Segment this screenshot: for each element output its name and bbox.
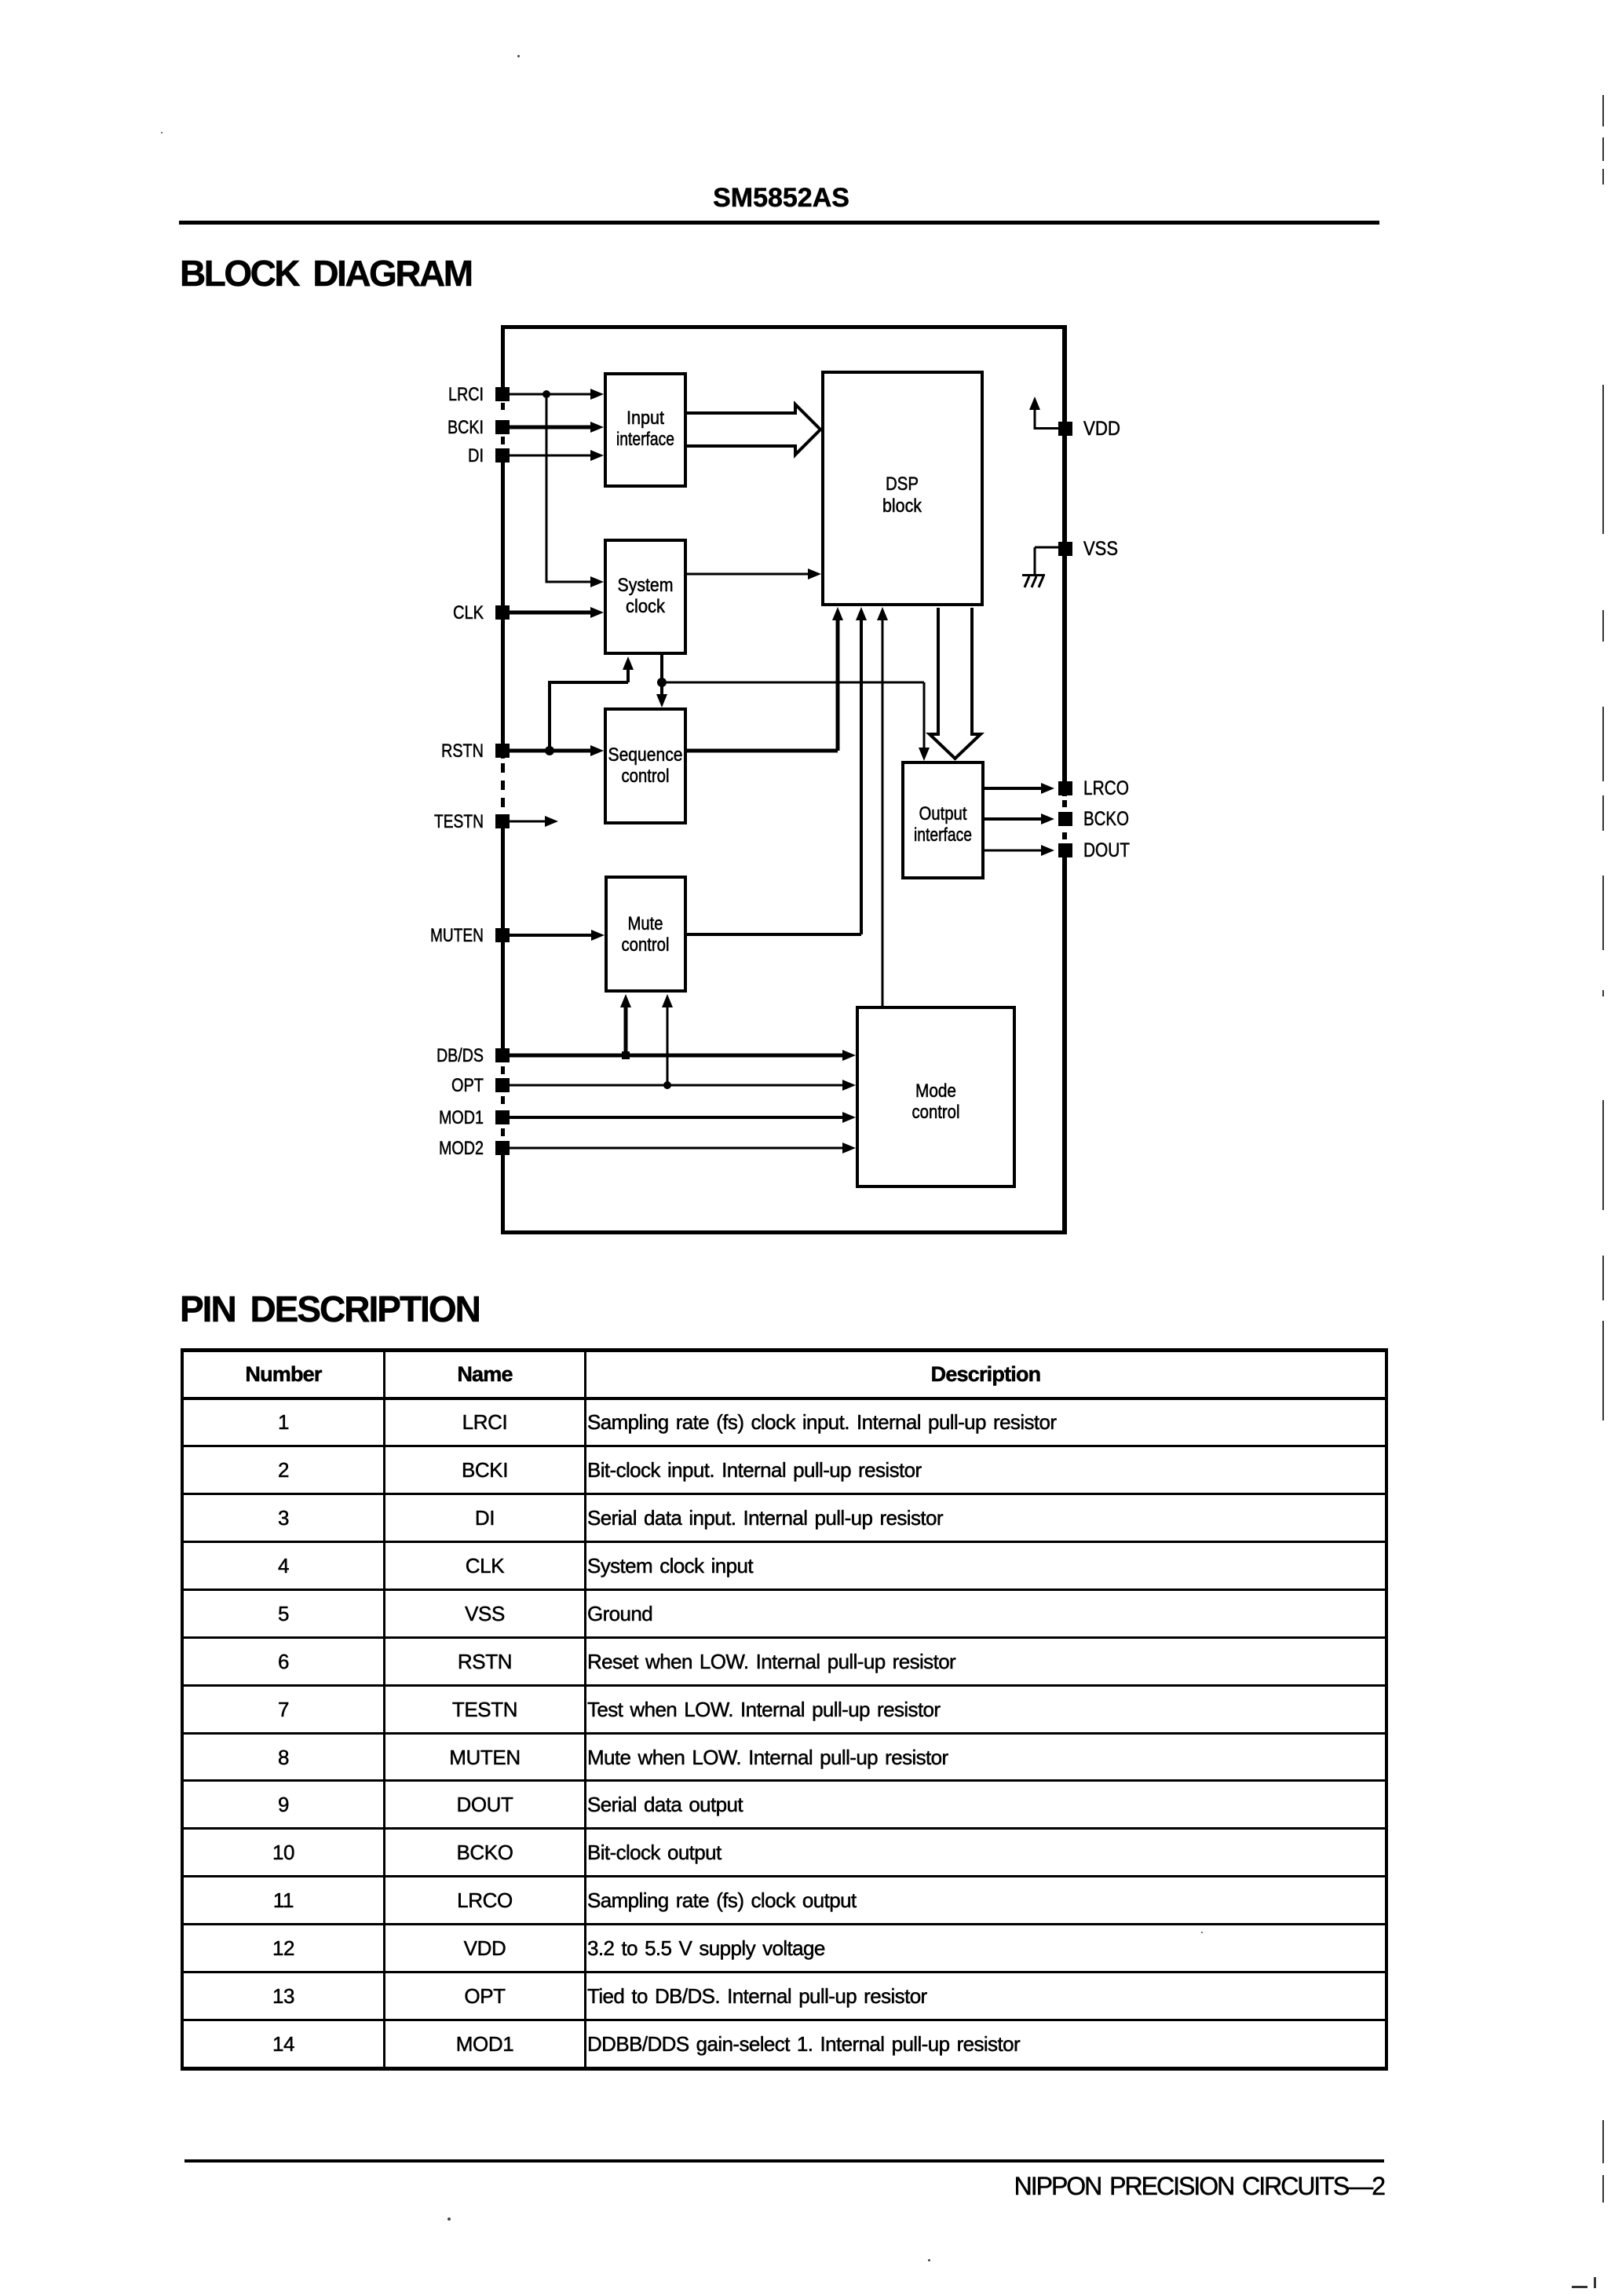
svg-text:LRCI: LRCI: [448, 384, 484, 405]
svg-text:VDD: VDD: [1083, 418, 1120, 440]
scan artifact: right margin broken line: [1602, 95, 1604, 126]
pin RSTN: [441, 740, 510, 762]
svg-text:BCKI: BCKI: [448, 417, 484, 438]
pin TESTN: [434, 811, 510, 832]
svg-text:CLK: CLK: [453, 602, 484, 623]
svg-text:RSTN: RSTN: [441, 740, 484, 762]
wire BCKI to Input interface: [510, 422, 604, 433]
wire LRCI to Input interface: [510, 389, 604, 400]
block Input interface: [605, 374, 685, 486]
svg-text:control: control: [622, 934, 670, 956]
page title SM5852AS: [709, 185, 853, 211]
block Mode control: [857, 1007, 1014, 1186]
svg-text:control: control: [912, 1102, 960, 1123]
pin MOD1: [439, 1107, 510, 1128]
wire MUTEN to Mute control: [510, 930, 605, 941]
svg-text:VSS: VSS: [1083, 538, 1118, 560]
pin LRCI: [448, 384, 510, 405]
chip boundary top edge: [501, 325, 1067, 329]
svg-text:LRCO: LRCO: [1083, 777, 1129, 799]
pin MOD2: [439, 1138, 510, 1159]
chip boundary right edge (solid upper): [1062, 325, 1067, 796]
block DSP: [823, 372, 982, 605]
wire Output interface to BCKO: [985, 813, 1054, 824]
svg-text:BCKO: BCKO: [1083, 808, 1129, 830]
svg-text:DOUT: DOUT: [1083, 839, 1130, 861]
svg-text:MOD2: MOD2: [439, 1138, 484, 1159]
scan artifact: small speckle dots: [517, 55, 520, 57]
table row 7 TESTN: [184, 1732, 1385, 1735]
svg-text:Sequence: Sequence: [608, 744, 683, 766]
wire Mode control to DSP: [877, 607, 888, 1007]
svg-text:Input: Input: [627, 408, 664, 429]
table row 13 OPT: [184, 2019, 1385, 2021]
pin VSS: [1058, 538, 1118, 560]
svg-text:Output: Output: [919, 803, 967, 824]
wire Output interface to DOUT: [985, 845, 1054, 856]
table row 10 BCKO: [184, 1875, 1385, 1877]
wire CLK to System clock: [510, 607, 604, 618]
bus arrow DSP to Output interface: [930, 608, 981, 759]
svg-text:DB/DS: DB/DS: [437, 1045, 484, 1066]
wire LRCI branch to System clock: [546, 394, 605, 587]
table row 8 MUTEN: [184, 1779, 1385, 1782]
svg-text:clock: clock: [626, 596, 666, 617]
svg-text:MOD1: MOD1: [439, 1107, 484, 1128]
table row 2 BCKI: [184, 1493, 1385, 1495]
table header row: [184, 1397, 1385, 1400]
wire DB/DS branch to Mute control: [620, 994, 631, 1055]
pin BCKO: [1058, 808, 1129, 830]
wire TESTN stub: [510, 816, 558, 827]
wire Output interface to LRCO: [985, 783, 1054, 794]
svg-text:Mode: Mode: [915, 1080, 956, 1102]
top rule: [179, 221, 1379, 225]
svg-text:Mute: Mute: [628, 913, 663, 934]
block System clock: [605, 540, 685, 653]
block Sequence control: [605, 709, 685, 823]
wire DB/DS to Mode control: [510, 1050, 856, 1061]
heading BLOCK DIAGRAM: [180, 255, 472, 291]
svg-text:DI: DI: [468, 445, 484, 466]
pin CLK: [453, 602, 510, 623]
VDD supply symbol: [1029, 397, 1059, 430]
svg-text:interface: interface: [616, 429, 674, 450]
wire Sequence control to DSP: [687, 607, 843, 753]
svg-text:TESTN: TESTN: [434, 811, 484, 832]
chip boundary bottom edge: [501, 1230, 1067, 1234]
table row 14 MOD1: [184, 2034, 383, 2054]
wire down into Output interface: [919, 682, 930, 761]
wire System clock to DSP: [687, 569, 821, 579]
wire MOD1 to Mode control: [510, 1112, 856, 1123]
pin LRCO: [1058, 777, 1129, 799]
wire RSTN to Sequence control: [510, 745, 604, 756]
wire OPT to Mode control: [510, 1080, 856, 1091]
svg-text:control: control: [622, 766, 670, 787]
wire DI to Input interface: [510, 450, 604, 461]
table row 11 LRCO: [184, 1923, 1385, 1925]
svg-text:System: System: [618, 575, 674, 596]
svg-text:block: block: [882, 495, 922, 517]
block Output interface: [903, 762, 983, 878]
wire RSTN branch to System clock bottom: [548, 656, 634, 751]
wire System clock branch across: [662, 682, 924, 684]
wire System clock to Sequence control: [656, 655, 667, 707]
svg-text:DSP: DSP: [886, 473, 919, 495]
table row 3 DI: [184, 1541, 1385, 1543]
table row 1 LRCI: [184, 1445, 1385, 1447]
table row 6 RSTN: [184, 1684, 1385, 1687]
scan artifact: bottom-right corner mark: [1572, 2286, 1587, 2288]
svg-text:interface: interface: [914, 824, 972, 846]
table row 5 VSS: [184, 1636, 1385, 1639]
svg-text:MUTEN: MUTEN: [430, 925, 484, 946]
VSS ground symbol: [1022, 547, 1058, 588]
pin DB/DS: [437, 1045, 510, 1066]
pin VDD: [1058, 418, 1120, 440]
footer text: [756, 2174, 1384, 2199]
table row 4 CLK: [184, 1589, 1385, 1591]
svg-text:OPT: OPT: [451, 1075, 484, 1096]
table row 9 DOUT: [184, 1827, 1385, 1830]
pin DI: [468, 445, 510, 466]
bus arrow Input interface to DSP: [687, 404, 820, 455]
heading PIN DESCRIPTION: [180, 1291, 480, 1327]
block Mute control: [606, 877, 685, 991]
wire MOD2 to Mode control: [510, 1143, 856, 1153]
wire Mute control to DSP: [687, 607, 867, 936]
table row 12 VDD: [184, 1971, 1385, 1973]
footer rule: [184, 2159, 1384, 2163]
pin DOUT: [1058, 839, 1130, 861]
table outer border: [181, 1348, 1388, 1352]
chip boundary right edge (dashes between output pins): [1062, 800, 1067, 807]
wire OPT branch to Mute control: [662, 994, 673, 1085]
pin MUTEN: [430, 925, 510, 946]
pin BCKI: [448, 417, 510, 438]
table column lines: [383, 1352, 385, 2067]
pin OPT: [451, 1075, 510, 1096]
chip boundary right edge (solid lower): [1062, 843, 1067, 1234]
chip boundary left edge segments: [501, 325, 505, 401]
